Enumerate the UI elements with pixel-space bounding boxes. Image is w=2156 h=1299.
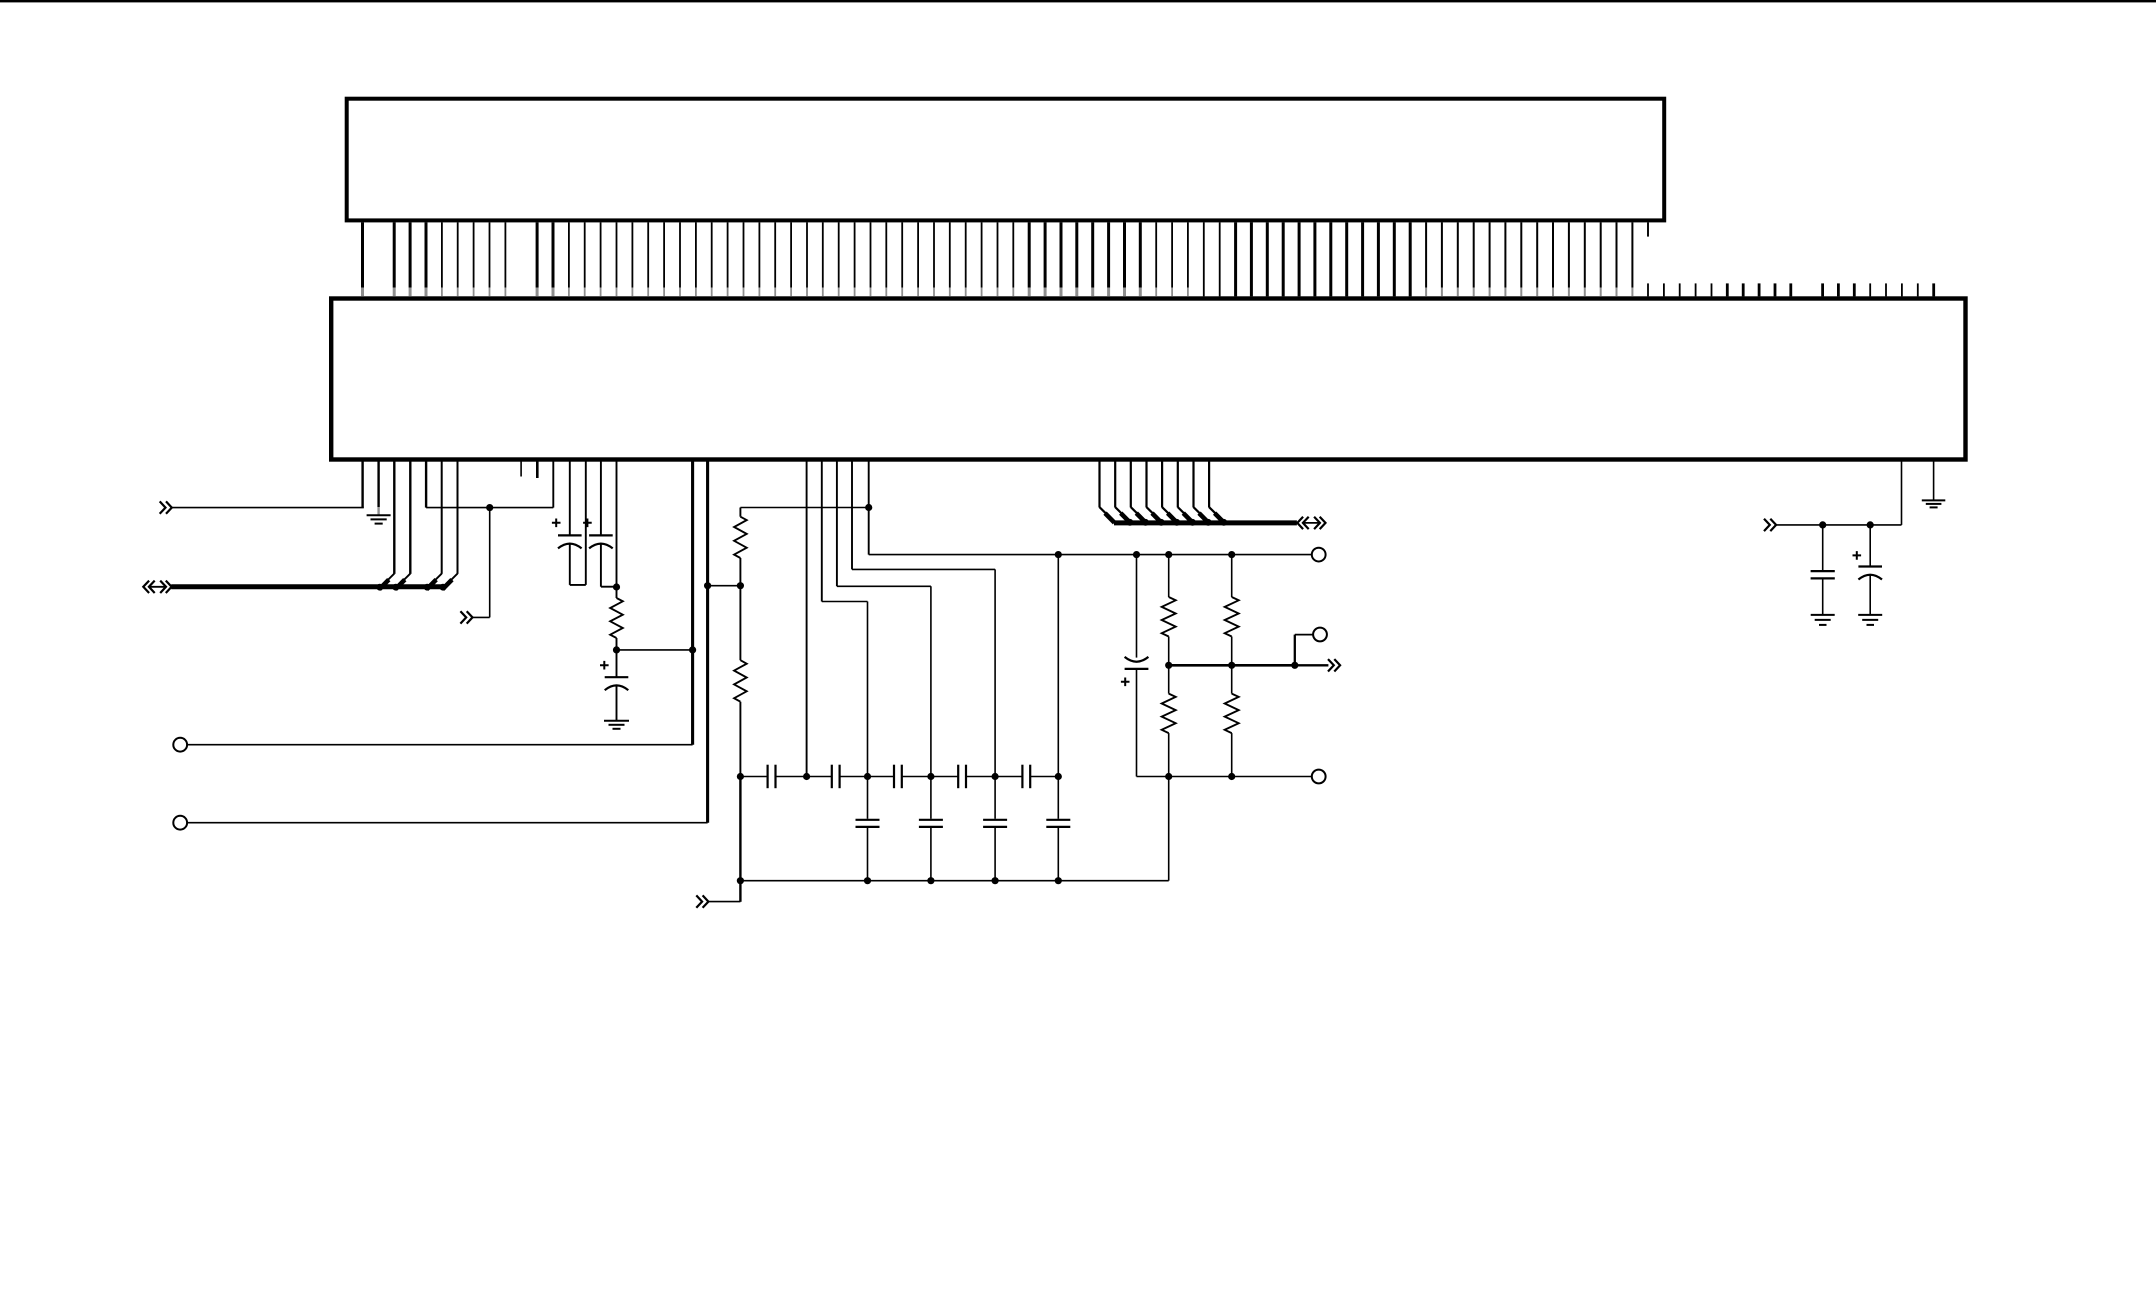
- wire U1-U2 pin 13: [568, 222, 570, 287]
- wire U1-U2 pin 52: [1187, 222, 1189, 287]
- wire U2 pin: [425, 459, 427, 508]
- capacitor C4 (series): [740, 776, 767, 778]
- wire data bus (left): [171, 584, 444, 589]
- connector bidirectional bus arrow (right): [1297, 517, 1303, 529]
- wire U1-U2 pin 34: [901, 222, 903, 287]
- wire U1-U2 pin 32: [870, 222, 872, 287]
- wire U1-U2 pin 72: [1504, 222, 1506, 287]
- wire bus entry diagonal: [1131, 507, 1145, 521]
- capacitor C1 (+): [552, 519, 561, 528]
- wire U1-U2 pin 27: [790, 222, 792, 287]
- node junction: [689, 646, 696, 653]
- capacitor C14: [1822, 525, 1824, 570]
- wire U2 pin to bus: [409, 459, 411, 574]
- connector pad J5: [1312, 770, 1326, 784]
- wire U1-U2 pin 37: [949, 222, 951, 287]
- wire U2 top stub pin 18: [1932, 283, 1935, 296]
- wire U1-U2 pin 18: [647, 222, 649, 287]
- IC U2 (main block): [331, 299, 1965, 460]
- wire U1-U2 pin 60: [1313, 222, 1316, 296]
- ground GND2: [604, 720, 629, 722]
- capacitor C11 (shunt): [994, 777, 996, 819]
- wire U1-U2 pin 80: [1631, 222, 1633, 287]
- wire ladder left leg: [739, 777, 741, 881]
- wire U1-U2 pin 7: [473, 222, 475, 287]
- wire U1-U2 pin 68: [1441, 222, 1443, 287]
- wire U1-U2 pin 61: [1329, 222, 1332, 296]
- resistor R1: [739, 508, 741, 517]
- node junction: [1055, 773, 1062, 780]
- wire U1-U2 pin 51: [1171, 222, 1173, 287]
- wire U2 pin to bus: [1177, 459, 1179, 507]
- wire U2 pin to bus: [1098, 459, 1100, 507]
- wire U2 top stub pin 13: [1853, 283, 1856, 296]
- node junction: [737, 877, 744, 884]
- node junction: [992, 773, 999, 780]
- ground GND5: [1922, 499, 1946, 501]
- wire bus entry diagonal: [443, 574, 457, 588]
- resistor R3: [616, 587, 618, 598]
- wire bus entry diagonal: [1147, 507, 1161, 521]
- wire U1-U2 pin 11: [536, 222, 539, 287]
- wire U1-U2 pin 19: [663, 222, 665, 287]
- wire U2 pin to bus: [1208, 459, 1210, 507]
- wire U1-U2 pin 67: [1425, 222, 1427, 287]
- wire U1-U2 pin 66: [1409, 222, 1412, 296]
- wire U1-U2 pin 31: [854, 222, 856, 287]
- node junction: [1228, 773, 1235, 780]
- wire U2 top stub pin 4: [1711, 283, 1713, 296]
- wire U1-U2 pin 26: [774, 222, 776, 287]
- wire U2 pin: [552, 459, 554, 508]
- connector output arrow (>>): [1328, 659, 1334, 671]
- wire U1-U2 pin 21: [695, 222, 697, 287]
- wire U2 top stub pin 16: [1901, 283, 1903, 296]
- wire U1-U2 pin 39: [981, 222, 983, 287]
- wire U2 top stub pin 11: [1821, 283, 1824, 296]
- node junction: [1055, 551, 1062, 558]
- wire bus entry diagonal: [1209, 507, 1223, 521]
- node junction: [1228, 551, 1235, 558]
- wire U2 ground pin: [377, 459, 379, 507]
- node junction: [927, 773, 934, 780]
- wire long net to pad: [869, 554, 1312, 556]
- wire U2 top stub pin 9: [1789, 283, 1792, 296]
- page top edge bar: [0, 0, 2156, 2]
- capacitor C2 (+): [583, 519, 592, 528]
- resistor R5: [1168, 665, 1170, 693]
- wire U2 pin to bus: [1192, 459, 1194, 507]
- wire U1-U2 pin 40: [997, 222, 999, 287]
- wire U2 pin to ladder: [806, 459, 808, 777]
- wire U1-U2 pin 0: [361, 222, 364, 287]
- wire U1-U2 pin 2: [393, 222, 396, 287]
- node junction: [1165, 551, 1172, 558]
- wire U2 pin to bus: [441, 459, 443, 574]
- wire U1-U2 pin 23: [727, 222, 729, 287]
- wire U1-U2 pin 59: [1298, 222, 1301, 296]
- wire U1-U2 pin 15: [600, 222, 602, 287]
- node junction: [1291, 662, 1298, 669]
- wire jog to pad J4: [1294, 635, 1296, 666]
- wire U2 top stub pin 15: [1885, 283, 1887, 296]
- capacitor C3 (+): [616, 650, 618, 677]
- node junction: [486, 504, 493, 511]
- wire U1-U2 pin 70: [1473, 222, 1475, 287]
- capacitor C15 (+): [1853, 551, 1862, 560]
- wire U1-U2 pin 12: [552, 222, 555, 287]
- wire U1-U2 pin 30: [838, 222, 840, 287]
- node junction: [737, 773, 744, 780]
- wire U1-U2 pin 46: [1091, 222, 1094, 287]
- wire U2 pin long: [691, 459, 694, 745]
- wire U1-U2 pin 14: [584, 222, 586, 287]
- wire mid row: [1169, 664, 1295, 667]
- wire U1-U2 pin 57: [1266, 222, 1269, 296]
- connector pad J4: [1313, 628, 1327, 642]
- wire net to arrow: [1776, 524, 1902, 526]
- wire U1-U2 pin 41: [1012, 222, 1014, 287]
- capacitor C7 (series): [931, 776, 958, 778]
- wire data bus (right): [1114, 520, 1297, 525]
- connector bidirectional bus arrow (left): [143, 581, 149, 593]
- wire U1-U2 pin 77: [1584, 222, 1586, 287]
- wire bus entry diagonal: [380, 574, 394, 588]
- resistor R6: [1231, 555, 1233, 597]
- connector input arrow (>>): [696, 895, 702, 907]
- wire bus entry diagonal: [1100, 507, 1114, 521]
- wire U1-U2 pin 47: [1107, 222, 1110, 287]
- wire U1-U2 pin 65: [1393, 222, 1396, 296]
- wire U1-U2 pin 25: [758, 222, 760, 287]
- wire U1-U2 pin 42: [1028, 222, 1031, 287]
- wire U2 pin long: [706, 459, 709, 823]
- capacitor C5 (series): [807, 776, 832, 778]
- IC U1 (top connector block): [347, 99, 1665, 221]
- wire drop to arrow: [489, 508, 491, 618]
- wire U2 stub: [520, 459, 522, 477]
- wire R3 to pin net: [617, 649, 693, 651]
- wire bus entry diagonal: [1178, 507, 1192, 521]
- wire U1-U2 pin 29: [822, 222, 824, 287]
- wire U2 top stub pin 7: [1758, 283, 1761, 296]
- capacitor C13 (+): [1136, 555, 1138, 658]
- node junction: [1867, 521, 1874, 528]
- wire U1-U2 pin 17: [631, 222, 633, 287]
- node junction: [1165, 773, 1172, 780]
- wire C1 to pin tie: [570, 584, 586, 586]
- node junction: [1819, 521, 1826, 528]
- wire net across: [426, 507, 553, 509]
- wire U1-U2 pin 64: [1377, 222, 1380, 296]
- ground GND3: [1811, 614, 1835, 616]
- capacitor C6 (series): [868, 776, 894, 778]
- wire drop to ladder: [1057, 555, 1059, 777]
- node junction: [613, 646, 620, 653]
- wire bus entry diagonal: [396, 574, 410, 588]
- wire U2 pin: [600, 459, 602, 535]
- node junction: [704, 582, 711, 589]
- wire U2 pin: [585, 459, 587, 585]
- resistor R2: [739, 586, 741, 661]
- wire U2 pin: [1901, 459, 1903, 525]
- wire U1-U2 pin 33: [885, 222, 887, 287]
- wire U1-U2 pin 43: [1044, 222, 1047, 287]
- wire U2 pin: [868, 459, 870, 555]
- connector pad J1: [173, 738, 187, 752]
- wire U2 top stub pin 0: [1647, 283, 1649, 296]
- wire U1-U2 pin 78: [1600, 222, 1602, 287]
- wire U1 stub pin (unconnected): [1647, 222, 1649, 236]
- connector input arrow (>>): [160, 501, 166, 513]
- wire U1-U2 pin 16: [616, 222, 618, 287]
- node junction: [1228, 662, 1235, 669]
- resistor R4: [1168, 555, 1170, 597]
- wire bus entry diagonal: [1194, 507, 1208, 521]
- wire U2 pin to bus: [457, 459, 459, 574]
- capacitor C12 (shunt): [1057, 777, 1059, 819]
- wire U2 pin to bus: [1161, 459, 1163, 507]
- wire net from U2 pin: [740, 507, 868, 509]
- wire bus entry diagonal: [1162, 507, 1176, 521]
- wire U2 top stub pin 14: [1869, 283, 1871, 296]
- wire U1-U2 pin 48: [1123, 222, 1126, 287]
- capacitor C10 (shunt): [930, 777, 932, 819]
- node junction: [1165, 662, 1172, 669]
- capacitor C8 (series): [995, 776, 1022, 778]
- wire U1-U2 pin 74: [1536, 222, 1538, 287]
- wire U1-U2 pin 3: [409, 222, 412, 287]
- capacitor C9 (shunt): [867, 777, 869, 819]
- wire U1-U2 pin 50: [1155, 222, 1157, 287]
- wire U1-U2 pin 62: [1345, 222, 1348, 296]
- wire U1-U2 pin 4: [425, 222, 428, 287]
- node junction: [803, 773, 810, 780]
- node junction: [737, 582, 744, 589]
- wire U1-U2 pin 8: [489, 222, 491, 287]
- wire bus entry diagonal: [1115, 507, 1129, 521]
- wire rail up to node: [1168, 777, 1170, 881]
- wire bottom rail: [740, 880, 1168, 882]
- wire U1-U2 pin 55: [1234, 222, 1237, 296]
- connector pad J2: [173, 816, 187, 830]
- wire U1-U2 pin 9: [504, 222, 506, 287]
- wire U1-U2 pin 45: [1075, 222, 1078, 287]
- wire U2 top stub pin 8: [1774, 283, 1777, 296]
- wire U1-U2 pin 28: [806, 222, 808, 287]
- wire U1-U2 pin 71: [1489, 222, 1491, 287]
- wire U1-U2 pin 58: [1282, 222, 1285, 296]
- wire net to connector: [171, 507, 364, 509]
- wire U1-U2 pin 35: [917, 222, 919, 287]
- wire U1-U2 pin 5: [441, 222, 443, 287]
- wire U1-U2 pin 75: [1552, 222, 1554, 287]
- wire U1-U2 pin 38: [965, 222, 967, 287]
- wire bus entry diagonal: [427, 574, 441, 588]
- connector pad J3: [1312, 548, 1326, 562]
- wire U2 top stub pin 12: [1837, 283, 1840, 296]
- connector input arrow (>>): [1764, 519, 1770, 531]
- wire U2 top stub pin 3: [1695, 283, 1697, 296]
- wire U2 pin staircase: [821, 459, 823, 602]
- wire U1-U2 pin 76: [1568, 222, 1570, 287]
- wire U1-U2 pin 36: [933, 222, 935, 287]
- wire U1-U2 pin 44: [1060, 222, 1063, 287]
- wire U2 stub: [536, 459, 539, 478]
- node junction: [613, 583, 620, 590]
- wire U2 pin: [1933, 459, 1935, 500]
- wire U2 pin: [616, 459, 618, 587]
- node junction: [1133, 551, 1140, 558]
- wire U1-U2 pin 79: [1616, 222, 1618, 287]
- wire U1-U2 pin 73: [1520, 222, 1522, 287]
- wire U2 top stub pin 2: [1679, 283, 1681, 296]
- wire U1-U2 pin 6: [457, 222, 459, 287]
- wire U1-U2 pin 56: [1250, 222, 1253, 296]
- connector input arrow (>>): [460, 611, 466, 623]
- wire U1-U2 pin 22: [711, 222, 713, 287]
- wire U1-U2 pin 53: [1203, 222, 1205, 296]
- wire U2 pin staircase: [851, 459, 853, 569]
- wire U1-U2 pin 69: [1457, 222, 1459, 287]
- wire U2 pin to bus: [393, 459, 395, 574]
- wire U2 pin: [569, 459, 571, 535]
- wire U2 pin to bus: [1145, 459, 1147, 507]
- wire U1-U2 pin 20: [679, 222, 681, 287]
- wire to pad J2: [187, 822, 708, 824]
- wire U1-U2 pin 63: [1361, 222, 1364, 296]
- wire U2 top stub pin 1: [1663, 283, 1665, 296]
- wire U2 pin staircase: [836, 459, 838, 586]
- wire tie to divider: [708, 585, 741, 587]
- node junction: [865, 504, 872, 511]
- wire C2 to R3: [601, 586, 617, 588]
- wire U2 pin to input arrow: [361, 459, 363, 508]
- wire bottom row to pad: [1137, 776, 1313, 778]
- ground GND4: [1858, 614, 1882, 616]
- wire U1-U2 pin 54: [1219, 222, 1221, 296]
- wire U2 top stub pin 5: [1726, 283, 1729, 296]
- wire U2 pin to bus: [1130, 459, 1132, 507]
- wire to output arrow: [1295, 664, 1329, 666]
- wire U2 top stub pin 6: [1742, 283, 1745, 296]
- ground GND1: [367, 514, 391, 516]
- wire U2 pin to bus: [1114, 459, 1116, 507]
- wire U1-U2 pin 24: [743, 222, 745, 287]
- wire U2 top stub pin 17: [1917, 283, 1919, 296]
- resistor R7: [1231, 665, 1233, 693]
- wire to pad J1: [187, 744, 693, 746]
- wire U1-U2 pin 49: [1139, 222, 1142, 287]
- node junction: [864, 773, 871, 780]
